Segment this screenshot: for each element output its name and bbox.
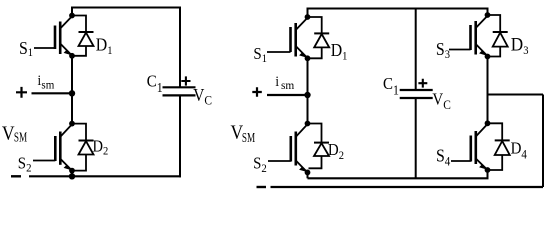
wire midpoint branch (left circuit) (71, 56, 73, 124)
wire right edge vertical (output minus) (542, 95, 544, 188)
node top of S2/D2 (right) (305, 121, 311, 127)
diode D3 (488, 15, 508, 57)
wire right branch upper (left circuit) (179, 8, 181, 88)
svg-text:SM: SM (242, 131, 255, 145)
wire output from right leg midpoint to right edge (488, 94, 544, 96)
wire input + lead (left circuit) (32, 92, 73, 94)
diode D2 (left) (72, 124, 94, 171)
capacitor C1 (left) (163, 87, 196, 95)
diode D1 (right) (308, 17, 330, 58)
transistor S4 (IGBT) (451, 124, 488, 170)
wire bottom rail (left circuit) (29, 175, 181, 177)
transistor S2 (IGBT, right) (268, 124, 308, 172)
node top of S1/D1 (right) (305, 14, 311, 20)
transistor S1 (IGBT, right) (267, 18, 308, 58)
wire top rail to S3 collector node (487, 9, 489, 16)
node top of S1/D1 (69, 13, 75, 19)
wire midpoint branch (right left leg) (307, 58, 309, 123)
wire right branch lower (left circuit) (179, 95, 181, 177)
node input + junction (right circuit) (304, 92, 310, 98)
label + of capacitor C1 (right) (418, 79, 427, 88)
svg-text:sm: sm (41, 79, 54, 91)
wire S2 emitter to bridge rail (right) (307, 172, 309, 178)
label + terminal (left circuit) (16, 87, 27, 98)
node top of S3/D3 (485, 12, 491, 18)
label + of capacitor C1 (left) (181, 76, 190, 85)
wire S2 emitter to bottom rail (71, 171, 73, 177)
label minus terminal (right circuit) (257, 186, 267, 188)
wire top rail (right circuit) (307, 8, 489, 10)
label + terminal (right circuit) (252, 87, 261, 96)
node on bottom rail (left) (69, 173, 75, 179)
wire S4 emitter to bridge rail (487, 170, 489, 178)
node bottom of S1/D1 (69, 53, 75, 59)
transistor S3 (IGBT) (449, 16, 488, 56)
svg-text:sm: sm (281, 79, 294, 92)
svg-text:i: i (275, 73, 279, 89)
capacitor C1 (right) (400, 90, 433, 98)
diode D4 (488, 123, 510, 170)
node top of S4/D4 (485, 120, 491, 126)
wire output minus line (right circuit) (271, 186, 544, 188)
wire midpoint branch (right leg) (487, 57, 489, 124)
label minus terminal (left circuit) (11, 175, 21, 177)
wire capacitor branch lower (right) (415, 98, 417, 178)
node bottom of S2/D2 (right) (305, 170, 311, 176)
diode D1 (left) (72, 16, 94, 56)
node top of S2/D2 (left) (69, 121, 75, 127)
svg-text:SM: SM (14, 131, 27, 145)
svg-text:V: V (2, 123, 15, 145)
node bottom of S1/D1 (right) (305, 55, 311, 61)
wire input + lead (right circuit) (267, 94, 308, 96)
node bottom of S3/D3 (485, 54, 491, 60)
diode D2 (right) (308, 124, 330, 169)
wire top rail to right S1 collector node (307, 9, 309, 18)
node bottom of S4/D4 (485, 167, 491, 173)
wire from top rail to S1 collector node (71, 8, 73, 16)
wire bridge bottom rail (right circuit) (308, 177, 489, 179)
node bottom of S2/D2 (left) (69, 168, 75, 174)
wire top rail (left circuit) (71, 7, 181, 9)
node input + junction (left circuit) (69, 90, 75, 96)
transistor S1 (IGBT) (34, 16, 72, 55)
transistor S2 (IGBT, left) (33, 124, 72, 170)
wire capacitor branch upper (right) (415, 9, 417, 91)
